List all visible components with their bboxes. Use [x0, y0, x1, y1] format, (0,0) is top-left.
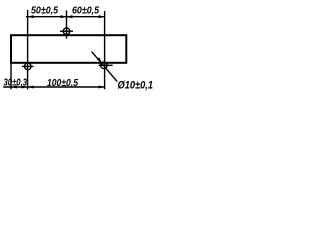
svg-text:50±0,5: 50±0,5 [31, 5, 58, 16]
svg-text:60±0,5: 60±0,5 [72, 5, 99, 16]
svg-text:100±0,5: 100±0,5 [47, 78, 78, 89]
svg-text:Ø10±0,1: Ø10±0,1 [118, 79, 154, 91]
svg-text:30±0,3: 30±0,3 [4, 77, 28, 88]
